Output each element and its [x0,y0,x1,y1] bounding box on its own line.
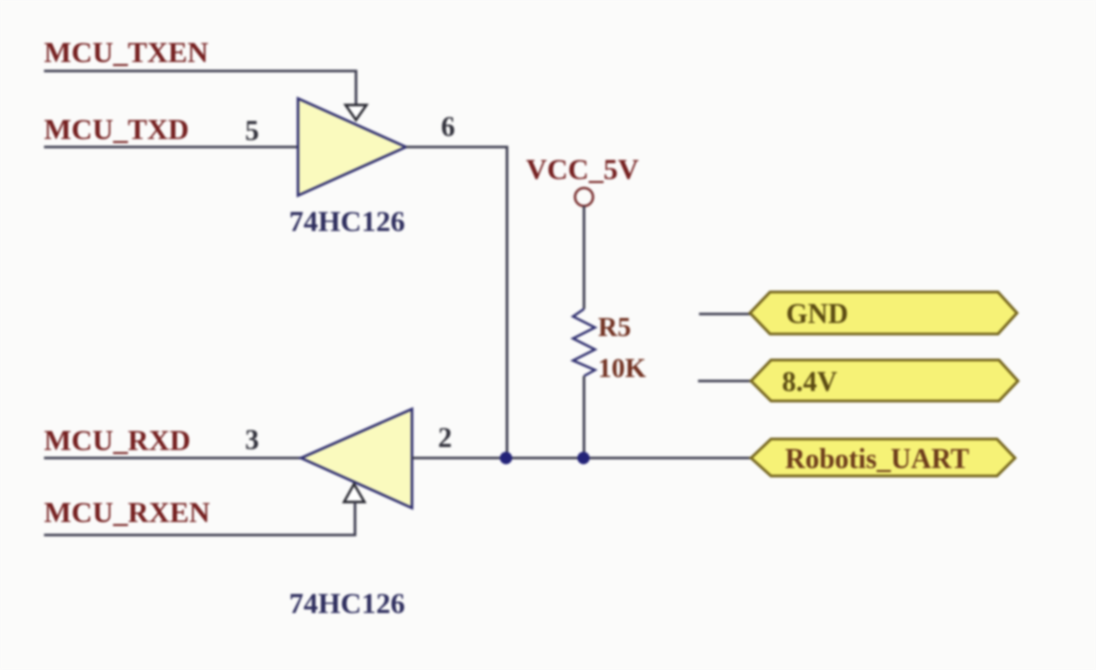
junction dot at resistor drop [577,452,589,464]
svg-text:74HC126: 74HC126 [289,206,405,238]
svg-text:2: 2 [438,423,452,454]
svg-text:VCC_5V: VCC_5V [526,154,639,186]
svg-text:10K: 10K [598,353,646,383]
wire pin6 output down to junction [406,147,507,458]
stub wire GND [699,313,751,316]
svg-text:MCU_TXD: MCU_TXD [44,114,189,146]
svg-text:6: 6 [441,112,455,143]
svg-text:8.4V: 8.4V [782,367,837,398]
stub wire 8.4V [698,380,752,383]
wire main output bus to connector [412,457,752,460]
junction dot at pin6 drop [500,452,512,464]
buffer U1 74HC126 (top, pointing right) [298,99,406,196]
connector flag Robotis_UART [751,439,1015,476]
buffer U2 74HC126 (bottom, pointing left) [301,409,412,508]
svg-text:MCU_RXEN: MCU_RXEN [44,497,210,529]
VCC circle [575,188,593,206]
wire MCU_TXEN to enable pin [44,71,356,104]
svg-text:GND: GND [786,299,848,330]
svg-text:74HC126: 74HC126 [289,588,405,620]
wire MCU_RXEN to enable pin [44,502,355,535]
connector flag GND [750,292,1017,334]
wire MCU_RXD [44,457,301,460]
wire MCU_TXD input [44,146,298,149]
wire resistor to junction [583,376,586,458]
resistor R5 [573,309,595,376]
svg-text:MCU_RXD: MCU_RXD [44,425,191,457]
enable arrow (open triangle) bottom buffer [344,484,365,502]
svg-text:Robotis_UART: Robotis_UART [785,444,969,475]
svg-text:5: 5 [245,116,259,147]
svg-text:R5: R5 [598,312,631,342]
enable arrow (open triangle, active enable) top buffer [346,105,367,120]
svg-text:MCU_TXEN: MCU_TXEN [44,37,208,69]
wire VCC to resistor [583,206,586,309]
svg-text:3: 3 [245,425,259,456]
connector flag 8.4V [751,360,1018,401]
